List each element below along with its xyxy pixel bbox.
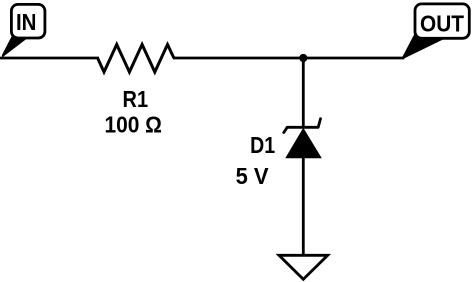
wire: junction down to zener cathode — [302, 58, 305, 127]
svg-text:IN: IN — [16, 9, 37, 35]
wire: IN terminal to resistor R1 left lead — [0, 57, 99, 60]
svg-text:D1: D1 — [250, 132, 275, 158]
svg-text:OUT: OUT — [420, 11, 465, 37]
svg-text:100 Ω: 100 Ω — [104, 111, 162, 137]
zener diode D1 (cathode bar with bent ends + filled anode triangle) — [284, 119, 322, 159]
terminal OUT (callout flag) — [403, 4, 470, 59]
svg-text:5 V: 5 V — [236, 163, 269, 189]
ground (open triangle) — [279, 255, 328, 279]
svg-text:R1: R1 — [123, 86, 149, 112]
junction node at R1/D1/OUT — [299, 54, 307, 62]
resistor R1 (zigzag body) — [98, 45, 174, 73]
terminal IN (callout flag) — [2, 4, 45, 57]
wire: zener anode down to ground — [302, 158, 305, 254]
wire: resistor R1 right lead to OUT terminal — [173, 57, 404, 60]
